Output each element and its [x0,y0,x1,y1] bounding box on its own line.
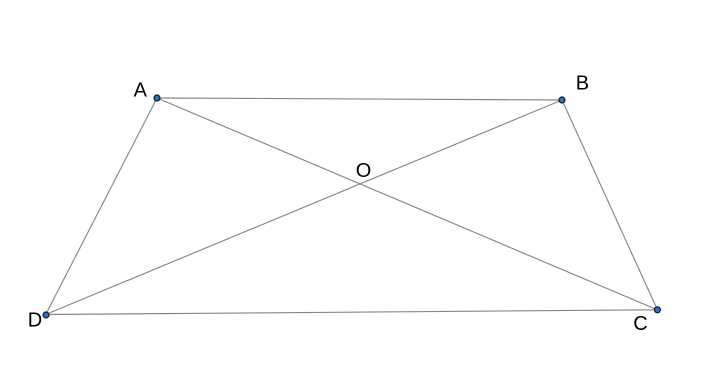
svg-text:D: D [28,310,42,332]
diagonal AC [157,98,657,310]
svg-text:C: C [633,313,647,335]
side DA [46,98,157,315]
side AB [157,98,562,100]
diagonal BD [46,100,562,315]
point B [559,97,565,103]
point C [654,307,660,313]
side CD [46,310,658,315]
svg-text:O: O [356,160,372,182]
side BC [562,100,657,310]
point A [154,95,160,101]
point D [43,312,49,318]
svg-text:B: B [576,73,589,95]
svg-text:A: A [134,80,148,102]
